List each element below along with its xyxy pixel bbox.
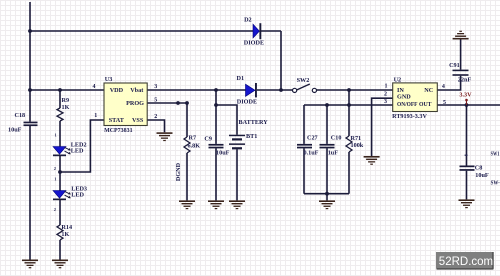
- wire C9 bottom lead to ground: [215, 148, 217, 200]
- value R14 1K: [61, 231, 69, 238]
- svg-text:5: 5: [443, 100, 446, 106]
- svg-text:DIODE: DIODE: [237, 98, 257, 105]
- wire lower rail C27 C10 R71 to U2 pin3: [304, 104, 393, 106]
- ground under BT1: [229, 200, 245, 209]
- wire U3 pin2 VSS to ground: [147, 120, 164, 132]
- value R9 1K: [62, 104, 70, 111]
- wire bottom rail joining C27 C10 R71: [304, 193, 349, 195]
- label D1: [237, 75, 245, 82]
- capacitor C18 plates: [24, 122, 38, 127]
- wire R14 bottom to ground: [59, 240, 61, 260]
- pin name PROG: [126, 100, 144, 107]
- wire SW2 to U2 pin1: [316, 89, 392, 91]
- pin number 4 U3: [93, 84, 96, 90]
- pin number 5 U2: [443, 100, 446, 106]
- node tick on C8 wire: [465, 155, 468, 156]
- wire C27 top lead: [303, 105, 305, 144]
- svg-text:D1: D1: [237, 75, 245, 82]
- label LED3: [71, 186, 87, 193]
- svg-text:Vbat: Vbat: [130, 87, 144, 94]
- ground under C9: [208, 200, 224, 209]
- wire C9 top lead: [215, 90, 217, 144]
- wire C8 top lead: [466, 105, 468, 166]
- wire STAT junction to LED3: [59, 172, 61, 191]
- pin number 2 LED2: [54, 166, 57, 171]
- svg-text:1: 1: [54, 177, 57, 182]
- pin name VSS: [132, 117, 144, 124]
- svg-text:STAT: STAT: [109, 117, 125, 124]
- value D2 DIODE: [244, 39, 264, 46]
- svg-text:10uF: 10uF: [475, 172, 489, 179]
- svg-text:LED: LED: [71, 191, 84, 198]
- value U3 MCP73831: [104, 127, 133, 134]
- label C27: [307, 135, 318, 142]
- label U3: [105, 76, 113, 83]
- label LED2: [71, 141, 87, 148]
- svg-text:4: 4: [442, 84, 445, 90]
- value R7 6.8K: [188, 143, 201, 150]
- wire U3 pin5 PROG stub: [147, 102, 187, 104]
- resistor R9 body: [57, 108, 63, 121]
- pin name IN: [397, 87, 404, 94]
- capacitor C27 plates: [297, 144, 312, 149]
- svg-text:6.8K: 6.8K: [188, 143, 201, 150]
- junction node battery tee: [214, 103, 218, 107]
- svg-text:1K: 1K: [61, 231, 69, 238]
- wire R7 top lead: [186, 103, 188, 137]
- value C27 0.1uF: [304, 150, 319, 157]
- pin name Vbat: [130, 87, 144, 94]
- pin name OUT: [419, 101, 432, 108]
- wire R7 bottom lead to ground: [186, 153, 188, 200]
- svg-text:U2: U2: [394, 76, 402, 83]
- svg-text:22nF: 22nF: [458, 76, 472, 83]
- resistor R14 body: [57, 225, 63, 240]
- wire U2 pin4 to C91: [437, 76, 460, 90]
- junction node PROG dot B: [185, 101, 189, 105]
- svg-text:2: 2: [54, 207, 57, 212]
- wire C10 ground stub: [326, 194, 328, 201]
- svg-text:LED: LED: [71, 148, 84, 155]
- pin number 4 U2: [442, 84, 445, 90]
- junction node C10 on lower rail: [325, 103, 329, 107]
- label D2: [244, 16, 252, 23]
- wire R9 to LED2: [59, 121, 61, 147]
- junction node main rail to R71: [347, 88, 351, 92]
- label C9: [204, 136, 212, 143]
- switch SW2 symbol: [293, 84, 317, 93]
- svg-text:10uF: 10uF: [216, 149, 230, 156]
- label R14: [61, 224, 72, 231]
- value C9 10uF: [216, 149, 230, 156]
- svg-text:D2: D2: [244, 16, 252, 23]
- svg-text:C9: C9: [204, 136, 212, 143]
- wire C8 bottom lead to ground: [466, 171, 468, 200]
- svg-text:VDD: VDD: [110, 87, 124, 94]
- wire U2 pin5 OUT to right edge: [437, 104, 500, 106]
- junction node C9 on Vbat rail: [214, 88, 218, 92]
- wire LED3 cathode to R14: [59, 200, 61, 225]
- junction node R71 on lower rail: [347, 103, 351, 107]
- ground under C8: [459, 199, 475, 208]
- value U2 RT9193-3.3V: [392, 113, 427, 120]
- pin number 1 U2: [385, 84, 388, 90]
- svg-text:3: 3: [154, 84, 157, 90]
- junction node C8 on OUT rail: [465, 103, 469, 107]
- diode D2 symbol: [253, 23, 261, 39]
- pin name VDD: [110, 87, 124, 94]
- wire R71 bottom lead: [348, 152, 350, 194]
- pin number 5 U3: [154, 98, 157, 104]
- ground flipped above C91: [453, 31, 469, 40]
- label C18: [15, 112, 26, 119]
- svg-text:4: 4: [93, 84, 96, 90]
- wire left vertical bus lower segment to ground: [29, 126, 31, 260]
- ground at U2 pin2: [364, 156, 380, 165]
- value LED3 LED: [71, 191, 84, 198]
- net label DGND vertical: [175, 162, 182, 181]
- svg-text:C27: C27: [307, 135, 318, 142]
- resistor R7 body: [184, 137, 190, 153]
- pin name ON/OFF: [397, 101, 418, 108]
- svg-text:1: 1: [55, 133, 58, 138]
- LED LED2 symbol: [53, 147, 71, 157]
- svg-text:C8: C8: [475, 164, 483, 171]
- wire main rail junction down through R71 position: [348, 90, 350, 136]
- pin number 3 U3: [154, 84, 157, 90]
- label R7: [189, 135, 197, 142]
- pin number 1 U3: [94, 113, 97, 119]
- wire left vertical bus top segment: [29, 2, 31, 122]
- svg-text:SW-: SW-: [491, 180, 500, 187]
- label SW- partial: [491, 180, 500, 187]
- junction node bus and VDD rail: [28, 88, 32, 92]
- pin name GND: [397, 93, 411, 100]
- svg-text:MCP73831: MCP73831: [104, 127, 133, 134]
- junction node R9 top: [58, 88, 62, 92]
- junction node at bus and top wire: [28, 29, 32, 33]
- svg-text:1: 1: [94, 113, 97, 119]
- label C8: [475, 164, 483, 171]
- svg-text:RT9193-3.3V: RT9193-3.3V: [392, 113, 427, 120]
- svg-text:PROG: PROG: [126, 100, 144, 107]
- value LED2 LED: [71, 148, 84, 155]
- ground at U3 VSS: [157, 132, 173, 141]
- svg-text:3.3V: 3.3V: [459, 92, 472, 99]
- svg-text:5: 5: [154, 98, 157, 104]
- pin number 2 U3: [154, 114, 157, 120]
- ground under left bus: [22, 260, 38, 269]
- ground under R7: [179, 200, 195, 209]
- svg-text:52RD.com: 52RD.com: [439, 256, 493, 268]
- wire R9 top lead: [59, 90, 61, 108]
- svg-text:1: 1: [385, 84, 388, 90]
- label R9: [62, 97, 70, 104]
- svg-text:10uF: 10uF: [8, 126, 22, 133]
- svg-text:2: 2: [154, 114, 157, 120]
- wire D1 cathode to SW2: [257, 89, 293, 91]
- wire U2 pin2 GND to ground: [372, 98, 393, 156]
- junction node PROG dot A: [176, 101, 180, 105]
- pin number 2 LED3: [54, 207, 57, 212]
- svg-text:U3: U3: [105, 76, 113, 83]
- label R71: [351, 135, 362, 142]
- wire LED2 cathode to STAT junction: [59, 156, 61, 172]
- op-amp U2 RT9193 box: [393, 83, 438, 112]
- label C91: [449, 62, 460, 69]
- resistor R71 body: [346, 136, 352, 152]
- capacitor C91 plates: [453, 70, 469, 76]
- op-amp U3 MCP73831 box: [104, 83, 147, 126]
- svg-text:100k: 100k: [351, 142, 364, 149]
- value C91 22nF: [458, 76, 472, 83]
- value C10 1uF: [328, 149, 339, 156]
- power port marker 3.3V: [465, 99, 468, 105]
- svg-text:BT1: BT1: [246, 133, 257, 140]
- svg-text:SW2: SW2: [297, 77, 310, 84]
- wire U3 pin1 STAT routing: [60, 120, 104, 172]
- junction node STAT to LED chain: [58, 170, 62, 174]
- wire BT1 bottom to ground: [236, 149, 238, 200]
- pin number 1 LED3: [54, 177, 57, 182]
- junction node C10 ground rail: [325, 192, 329, 196]
- LED LED3 symbol: [53, 191, 71, 201]
- wire D2 cathode to corner: [261, 30, 281, 32]
- ground under C10 rail: [319, 200, 335, 209]
- value C18 10uF: [8, 126, 22, 133]
- wire vertical from D2 branch down to main rail: [280, 31, 282, 90]
- diode D1 symbol: [246, 83, 257, 97]
- wire C27 bottom lead: [303, 148, 305, 193]
- svg-text:2: 2: [384, 91, 387, 97]
- svg-text:NC: NC: [424, 87, 433, 94]
- svg-text:SW1: SW1: [491, 150, 500, 157]
- power net 3.3V: [459, 92, 472, 99]
- value R71 100k: [351, 142, 364, 149]
- junction node D2 branch on main rail: [279, 88, 283, 92]
- svg-text:C91: C91: [449, 62, 460, 69]
- svg-text:OUT: OUT: [419, 101, 432, 108]
- label BT1: [246, 133, 257, 140]
- value C8 10uF: [475, 172, 489, 179]
- capacitor C10 plates: [320, 144, 335, 149]
- wire C10 bottom lead: [326, 148, 328, 193]
- wire battery branch from C9 vertical: [216, 105, 237, 135]
- svg-text:0.1uF: 0.1uF: [304, 150, 319, 157]
- svg-text:3: 3: [384, 99, 387, 105]
- label SW2: [297, 77, 310, 84]
- pin number 3 U2: [384, 99, 387, 105]
- value BT1 BATTERY: [239, 119, 269, 126]
- svg-text:C18: C18: [15, 112, 26, 119]
- svg-text:DIODE: DIODE: [244, 39, 264, 46]
- svg-text:2: 2: [54, 166, 57, 171]
- svg-text:R7: R7: [189, 135, 197, 142]
- svg-text:GND: GND: [397, 93, 411, 100]
- wire top horizontal to D2 anode: [30, 30, 253, 32]
- battery BT1 symbol: [229, 135, 245, 150]
- pin number 2 U2: [384, 91, 387, 97]
- value D1 DIODE: [237, 98, 257, 105]
- pin number 1 LED2: [55, 133, 58, 138]
- svg-text:BATTERY: BATTERY: [239, 119, 269, 126]
- svg-text:VSS: VSS: [132, 117, 144, 124]
- svg-text:DGND: DGND: [175, 162, 182, 181]
- wire U3 pin3 Vbat rail to D1 anode: [147, 89, 245, 91]
- ground under R14 LED chain: [52, 260, 68, 269]
- svg-text:1uF: 1uF: [328, 149, 339, 156]
- wire VDD rail from bus to U3 pin4: [30, 89, 104, 91]
- wire C10 top lead: [326, 105, 328, 144]
- pin name NC: [424, 87, 433, 94]
- wire C91 top to flipped ground: [460, 40, 462, 70]
- pin name STAT: [109, 117, 125, 124]
- capacitor C9 plates: [209, 144, 224, 149]
- label C10: [331, 135, 342, 142]
- capacitor C8 plates: [460, 166, 475, 171]
- svg-text:C10: C10: [331, 135, 342, 142]
- watermark 52RD.com box: [436, 252, 493, 269]
- svg-text:ON/OFF: ON/OFF: [397, 101, 418, 108]
- label SW1: [491, 150, 500, 157]
- label U2: [394, 76, 402, 83]
- svg-text:1K: 1K: [62, 104, 70, 111]
